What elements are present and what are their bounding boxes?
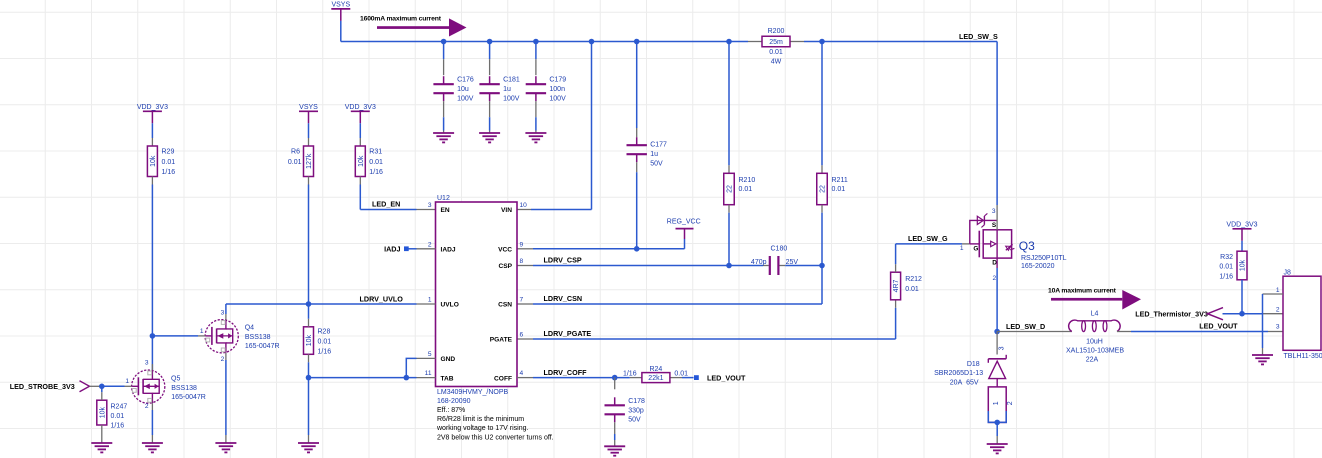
- svg-text:10uH: 10uH: [1086, 338, 1103, 345]
- transistor Q3: [970, 213, 1067, 270]
- svg-text:EN: EN: [441, 207, 450, 214]
- svg-text:1/16: 1/16: [623, 371, 637, 378]
- pin 1 UVLO of U12: [417, 297, 459, 309]
- net label LDRV_CSN: [544, 294, 583, 303]
- pin number 2 of Q4: [221, 356, 225, 363]
- svg-text:0.01: 0.01: [162, 159, 176, 166]
- svg-text:1/16: 1/16: [162, 169, 176, 176]
- svg-text:VDD_3V3: VDD_3V3: [137, 104, 168, 111]
- svg-text:IADJ: IADJ: [384, 244, 400, 253]
- pin 8 CSP of U12: [498, 258, 523, 270]
- svg-text:Eff.: 87%: Eff.: 87%: [437, 407, 465, 414]
- svg-text:VSYS: VSYS: [299, 104, 318, 111]
- junction LED_SW_D: [994, 329, 1000, 335]
- junction D18 bottom: [994, 420, 1000, 426]
- wire TAB: [309, 377, 417, 379]
- wire port to Q5 gate: [90, 385, 132, 387]
- pin number 3 of Q4: [221, 309, 225, 316]
- wire C180 right: [785, 265, 822, 267]
- svg-text:CSN: CSN: [498, 302, 512, 309]
- svg-text:Q3: Q3: [1019, 239, 1035, 253]
- wire LDRV_CSN: [517, 266, 822, 305]
- resistor R32: [1219, 251, 1247, 280]
- svg-text:LED_VOUT: LED_VOUT: [707, 373, 746, 382]
- svg-text:R24: R24: [649, 366, 662, 373]
- svg-text:1: 1: [200, 328, 204, 335]
- junction VCC/C177: [634, 246, 640, 252]
- pin number 1 of Q5: [125, 378, 129, 385]
- wire R31 bottom / LED_EN: [360, 177, 435, 210]
- net label LED_VOUT right: [1199, 322, 1238, 331]
- svg-text:R31: R31: [369, 149, 382, 156]
- svg-text:10k: 10k: [150, 155, 157, 167]
- svg-text:LDRV_PGATE: LDRV_PGATE: [544, 329, 592, 338]
- svg-text:3: 3: [998, 346, 1005, 350]
- svg-text:IADJ: IADJ: [441, 247, 456, 254]
- svg-text:22: 22: [820, 185, 827, 193]
- svg-text:0.01: 0.01: [674, 371, 688, 378]
- wire C176 top: [443, 42, 445, 76]
- power flag VSYS: [331, 2, 350, 21]
- pin 1 of J8: [1263, 287, 1284, 294]
- pin number 3 of Q3: [992, 208, 996, 215]
- junction rail/VIN: [589, 39, 595, 45]
- wire L4 to J8 pin3: [1117, 331, 1283, 333]
- wire R212 to Q3 gate: [896, 244, 970, 272]
- wire thermistor net: [1223, 313, 1284, 315]
- pin number 1 of Q4: [200, 328, 204, 335]
- svg-text:11: 11: [425, 370, 432, 377]
- ground R247: [91, 443, 112, 452]
- svg-text:0.01: 0.01: [769, 49, 783, 56]
- svg-text:3: 3: [992, 208, 996, 215]
- svg-text:2: 2: [993, 275, 997, 282]
- junction CSN/R211/C180: [819, 263, 825, 269]
- resistor R247: [97, 400, 128, 429]
- svg-text:S: S: [992, 222, 997, 229]
- junction R29/Q4 gate: [150, 333, 156, 339]
- annotation arrow 10A maximum current: [1048, 288, 1141, 310]
- junction rail/C176: [441, 39, 447, 45]
- svg-text:0.01: 0.01: [739, 186, 753, 193]
- svg-text:SBR2065D1-13: SBR2065D1-13: [934, 370, 983, 377]
- junction CSP/R210: [726, 263, 732, 269]
- annotation arrow 1600mA maximum current: [360, 16, 467, 37]
- svg-text:U12: U12: [437, 195, 450, 202]
- wire R29 top: [151, 123, 153, 146]
- wire C177 bottom: [636, 162, 638, 249]
- ground Q5: [142, 443, 163, 452]
- svg-text:1600mA maximum current: 1600mA maximum current: [360, 16, 442, 23]
- ground C176: [433, 133, 454, 142]
- svg-text:2V8 below this U2 converter tu: 2V8 below this U2 converter turns off.: [437, 434, 554, 441]
- resistor R29: [147, 146, 175, 177]
- junction GND/TAB: [404, 375, 410, 381]
- ground C179: [525, 133, 546, 142]
- pin number 3 of D18: [998, 346, 1005, 350]
- wire R211 bottom: [821, 205, 823, 266]
- svg-text:PGATE: PGATE: [490, 337, 513, 344]
- svg-text:LDRV_CSP: LDRV_CSP: [544, 256, 582, 265]
- svg-text:R211: R211: [832, 177, 848, 184]
- power flag REG_VCC: [667, 218, 701, 239]
- power flag VDD_3V3 at R29: [137, 104, 168, 123]
- wire R6 top: [308, 123, 310, 146]
- svg-text:1/16: 1/16: [318, 349, 332, 356]
- svg-text:22: 22: [727, 185, 734, 193]
- svg-text:10A maximum current: 10A maximum current: [1048, 288, 1117, 295]
- wire C179 bottom: [535, 101, 537, 133]
- svg-text:L4: L4: [1091, 311, 1099, 318]
- port LED_STROBE_3V3: [10, 381, 90, 392]
- wire Q3 drain: [996, 258, 998, 331]
- transistor Q5: [132, 370, 206, 403]
- pin 2 of J8: [1276, 307, 1280, 314]
- net label LED_EN: [372, 200, 400, 209]
- wire C177 top: [636, 42, 638, 138]
- svg-text:8: 8: [520, 258, 524, 265]
- svg-text:0.01: 0.01: [288, 159, 302, 166]
- svg-text:25m: 25m: [769, 39, 783, 46]
- capacitor C177: [627, 137, 668, 167]
- net label LDRV_COFF: [544, 368, 588, 377]
- capacitor C178: [605, 397, 646, 423]
- svg-text:20A 65V: 20A 65V: [950, 379, 979, 386]
- junction thermistor/R32: [1239, 311, 1245, 317]
- svg-text:G: G: [973, 246, 978, 253]
- svg-text:4R7: 4R7: [893, 279, 900, 292]
- pin number 2 of Q5: [145, 403, 149, 410]
- pin 2 IADJ of U12: [384, 241, 456, 253]
- svg-text:100V: 100V: [457, 96, 474, 103]
- net label LED_SW_G: [908, 234, 948, 243]
- wire R210 top: [728, 42, 730, 174]
- svg-text:4: 4: [520, 370, 524, 377]
- svg-text:R247: R247: [111, 403, 128, 410]
- junction rail/C181: [487, 39, 493, 45]
- wire D18 to ground: [996, 422, 998, 444]
- pin number 3 of Q5: [145, 360, 149, 367]
- svg-text:C180: C180: [771, 246, 788, 253]
- svg-text:CSP: CSP: [498, 263, 512, 270]
- svg-text:VCC: VCC: [498, 247, 512, 254]
- svg-text:5: 5: [428, 351, 432, 358]
- svg-text:165-0047R: 165-0047R: [245, 343, 280, 350]
- capacitor C176: [433, 76, 474, 102]
- svg-text:0.01: 0.01: [369, 159, 383, 166]
- svg-text:1: 1: [125, 378, 129, 385]
- wire Q4 drain: [225, 304, 227, 320]
- resistor R31: [355, 146, 383, 177]
- wire Q5 source: [151, 403, 153, 443]
- svg-text:6: 6: [520, 332, 524, 339]
- svg-text:C181: C181: [503, 77, 520, 84]
- svg-text:R6/R28 limit is the minimum: R6/R28 limit is the minimum: [437, 416, 524, 423]
- pin 6 PGATE of U12: [490, 332, 524, 344]
- wire C176 bottom: [443, 101, 445, 133]
- svg-text:1: 1: [960, 245, 964, 252]
- svg-text:C176: C176: [457, 77, 474, 84]
- wire C178 bottom: [614, 422, 616, 446]
- svg-text:C179: C179: [549, 77, 566, 84]
- junction rail/C177: [634, 39, 640, 45]
- svg-text:165-0047R: 165-0047R: [171, 394, 206, 401]
- svg-text:330p: 330p: [628, 407, 644, 414]
- svg-text:2: 2: [221, 356, 225, 363]
- svg-text:22k1: 22k1: [648, 375, 663, 382]
- svg-text:10k: 10k: [1240, 259, 1247, 271]
- wire R210 bottom: [728, 205, 730, 266]
- svg-text:LED_SW_S: LED_SW_S: [959, 32, 998, 41]
- junction UVLO/R6/R28: [306, 301, 312, 307]
- capacitor C180: [751, 246, 798, 275]
- connector J8: [1283, 269, 1322, 359]
- ground Q4: [215, 443, 236, 452]
- svg-text:C177: C177: [650, 142, 667, 149]
- pin 5 GND of U12: [417, 351, 456, 363]
- pin 3 of J8: [1276, 324, 1280, 331]
- wire R31 top: [359, 123, 361, 146]
- wire LDRV_CSP: [517, 265, 763, 267]
- svg-text:50V: 50V: [628, 417, 641, 424]
- wire VCC: [517, 239, 685, 249]
- svg-text:1: 1: [993, 401, 1000, 405]
- svg-text:R32: R32: [1220, 254, 1233, 261]
- svg-text:VIN: VIN: [501, 207, 512, 214]
- svg-text:TBLH11-350: TBLH11-350: [1284, 353, 1322, 360]
- wire R28 bottom: [308, 354, 310, 443]
- svg-text:UVLO: UVLO: [441, 302, 459, 309]
- resistor R211: [817, 173, 848, 204]
- wire R247 bottom: [101, 425, 103, 443]
- resistor R28: [304, 327, 332, 356]
- op-amp U12 body: [436, 195, 518, 387]
- wire Q4 gate: [152, 335, 205, 337]
- svg-text:Q5: Q5: [171, 375, 180, 382]
- svg-text:0.01: 0.01: [1219, 264, 1233, 271]
- pin 3 EN of U12: [428, 202, 450, 214]
- svg-text:165-20020: 165-20020: [1021, 263, 1055, 270]
- svg-text:10k: 10k: [99, 406, 106, 418]
- svg-text:Q4: Q4: [245, 324, 254, 331]
- wire C181 bottom: [489, 101, 491, 133]
- svg-text:0.01: 0.01: [318, 339, 332, 346]
- wire R6 bottom: [308, 177, 310, 305]
- svg-text:R212: R212: [905, 276, 922, 283]
- svg-text:1: 1: [1276, 287, 1280, 294]
- svg-text:1u: 1u: [650, 151, 658, 158]
- svg-text:R210: R210: [739, 177, 756, 184]
- net label LDRV_PGATE: [544, 329, 592, 338]
- pin number 1 of Q3: [960, 245, 964, 252]
- wire Q4 source: [225, 353, 227, 443]
- ground J8: [1252, 355, 1273, 364]
- wire D18 top: [996, 332, 998, 355]
- wire GND pin: [406, 358, 416, 377]
- svg-text:LDRV_CSN: LDRV_CSN: [544, 294, 583, 303]
- svg-text:LDRV_COFF: LDRV_COFF: [544, 368, 588, 377]
- svg-text:R28: R28: [318, 329, 331, 336]
- svg-text:3: 3: [1276, 324, 1280, 331]
- svg-text:BSS138: BSS138: [171, 385, 197, 392]
- svg-text:LED_EN: LED_EN: [372, 200, 400, 209]
- svg-text:2: 2: [428, 241, 432, 248]
- svg-text:2: 2: [145, 403, 149, 410]
- svg-text:1/16: 1/16: [1219, 273, 1233, 280]
- wire J8 pin1 to ground: [1262, 294, 1264, 355]
- svg-text:3: 3: [221, 309, 225, 316]
- svg-text:C178: C178: [628, 398, 645, 405]
- svg-text:R6: R6: [291, 149, 300, 156]
- capacitor C181: [479, 76, 520, 102]
- wire R247 top: [101, 386, 103, 400]
- junction rail/R210: [726, 39, 732, 45]
- wire LDRV_COFF: [517, 377, 630, 379]
- svg-text:4W: 4W: [771, 59, 782, 66]
- net label LED_SW_S: [959, 32, 998, 41]
- svg-text:VDD_3V3: VDD_3V3: [1226, 222, 1257, 229]
- resistor R200: [748, 28, 804, 65]
- ground D18: [987, 444, 1008, 453]
- svg-text:0.01: 0.01: [111, 413, 125, 420]
- wire rail right of R200: [804, 41, 997, 43]
- svg-text:10k: 10k: [358, 155, 365, 167]
- wire R32 bottom: [1241, 280, 1243, 314]
- svg-text:RSJ250P10TL: RSJ250P10TL: [1021, 255, 1067, 262]
- svg-text:100V: 100V: [503, 96, 520, 103]
- svg-text:50V: 50V: [650, 161, 663, 168]
- wire VIN: [517, 42, 592, 210]
- svg-text:R200: R200: [768, 28, 785, 35]
- power flag VSYS at R6: [299, 104, 318, 123]
- svg-text:LED_Thermistor_3V3: LED_Thermistor_3V3: [1135, 310, 1208, 319]
- resistor R24: [623, 366, 688, 383]
- wire R29 bottom: [151, 177, 153, 371]
- svg-text:1/16: 1/16: [369, 169, 383, 176]
- svg-text:10: 10: [520, 202, 528, 209]
- svg-text:127k: 127k: [306, 153, 313, 169]
- svg-text:J8: J8: [1284, 269, 1292, 276]
- wire C181 top: [489, 42, 491, 76]
- svg-text:D18: D18: [967, 361, 980, 368]
- port LED_Thermistor_3V3: [1135, 308, 1223, 320]
- svg-text:COFF: COFF: [494, 375, 512, 382]
- pin 10 VIN of U12: [501, 202, 527, 214]
- pin 7 CSN of U12: [498, 297, 523, 309]
- pin number 2 of Q3: [993, 275, 997, 282]
- svg-text:working voltage to 17V rising.: working voltage to 17V rising.: [436, 425, 528, 432]
- resistor R212: [891, 272, 922, 300]
- svg-text:7: 7: [520, 297, 524, 304]
- ground R28: [298, 443, 319, 452]
- inductor L4: [1066, 311, 1124, 364]
- svg-text:VDD_3V3: VDD_3V3: [345, 104, 376, 111]
- wire Q3 source: [996, 42, 998, 230]
- svg-text:R29: R29: [162, 149, 175, 156]
- junction rail/C179: [533, 39, 539, 45]
- wire LDRV_UVLO: [226, 303, 417, 305]
- ground C178: [604, 446, 625, 455]
- svg-text:470p: 470p: [751, 259, 767, 266]
- junction COFF/C178: [612, 375, 618, 381]
- svg-text:100V: 100V: [549, 96, 566, 103]
- resistor R210: [724, 173, 756, 204]
- transistor Q4: [205, 320, 279, 353]
- svg-text:LED_SW_D: LED_SW_D: [1006, 322, 1045, 331]
- wire R32 top: [1241, 241, 1243, 251]
- svg-text:22A: 22A: [1086, 356, 1099, 363]
- svg-text:10u: 10u: [457, 86, 469, 93]
- svg-text:9: 9: [520, 241, 524, 248]
- power flag VDD_3V3 at R31: [345, 104, 376, 123]
- svg-text:10k: 10k: [306, 334, 313, 346]
- svg-text:REG_VCC: REG_VCC: [667, 218, 701, 225]
- pin 9 VCC of U12: [498, 241, 523, 253]
- svg-text:VSYS: VSYS: [331, 2, 350, 9]
- svg-text:LED_STROBE_3V3: LED_STROBE_3V3: [10, 382, 75, 391]
- svg-text:100n: 100n: [549, 86, 565, 93]
- junction port/R247: [99, 384, 105, 390]
- wire C178 top: [614, 378, 616, 390]
- wire R28 top: [308, 304, 310, 327]
- svg-text:XAL1510-103MEB: XAL1510-103MEB: [1066, 347, 1124, 354]
- svg-text:GND: GND: [441, 356, 456, 363]
- terminal LED_VOUT: [682, 373, 746, 382]
- svg-text:BSS138: BSS138: [245, 334, 271, 341]
- svg-text:3: 3: [145, 360, 149, 367]
- wire R211 top: [821, 42, 823, 174]
- net label LED_SW_D: [1006, 322, 1045, 331]
- wire C179 top: [535, 42, 537, 76]
- junction R28/TAB: [306, 375, 312, 381]
- svg-text:LDRV_UVLO: LDRV_UVLO: [360, 294, 404, 303]
- U12 value text: [436, 389, 554, 442]
- diode D18: [934, 355, 1014, 423]
- wire LED_SW_D to L4: [997, 331, 1072, 333]
- svg-text:LED_VOUT: LED_VOUT: [1199, 322, 1238, 331]
- net label LDRV_CSP: [544, 256, 582, 265]
- power flag VDD_3V3 at R32: [1226, 222, 1257, 241]
- svg-text:0.01: 0.01: [832, 186, 846, 193]
- svg-text:TAB: TAB: [441, 375, 454, 382]
- pin 4 COFF of U12: [494, 370, 523, 382]
- junction rail/R211: [819, 39, 825, 45]
- capacitor C179: [526, 76, 567, 102]
- resistor R6: [288, 146, 314, 177]
- svg-text:LED_SW_G: LED_SW_G: [908, 234, 948, 243]
- svg-text:3: 3: [428, 202, 432, 209]
- svg-text:2: 2: [1276, 307, 1280, 314]
- svg-text:LM3409HVMY_/NOPB: LM3409HVMY_/NOPB: [437, 389, 509, 396]
- svg-text:1/16: 1/16: [111, 423, 125, 430]
- svg-text:0.01: 0.01: [905, 286, 919, 293]
- svg-text:2: 2: [1007, 401, 1014, 405]
- ground C181: [479, 133, 500, 142]
- wire LDRV_PGATE: [517, 300, 896, 339]
- svg-text:1u: 1u: [503, 86, 511, 93]
- wire VSYS drop: [341, 21, 748, 42]
- wire Q5 drain: [151, 364, 153, 370]
- net label LDRV_UVLO: [360, 294, 404, 303]
- svg-text:168-20090: 168-20090: [437, 398, 471, 405]
- svg-text:1: 1: [428, 297, 432, 304]
- pin 11 TAB of U12: [417, 370, 454, 382]
